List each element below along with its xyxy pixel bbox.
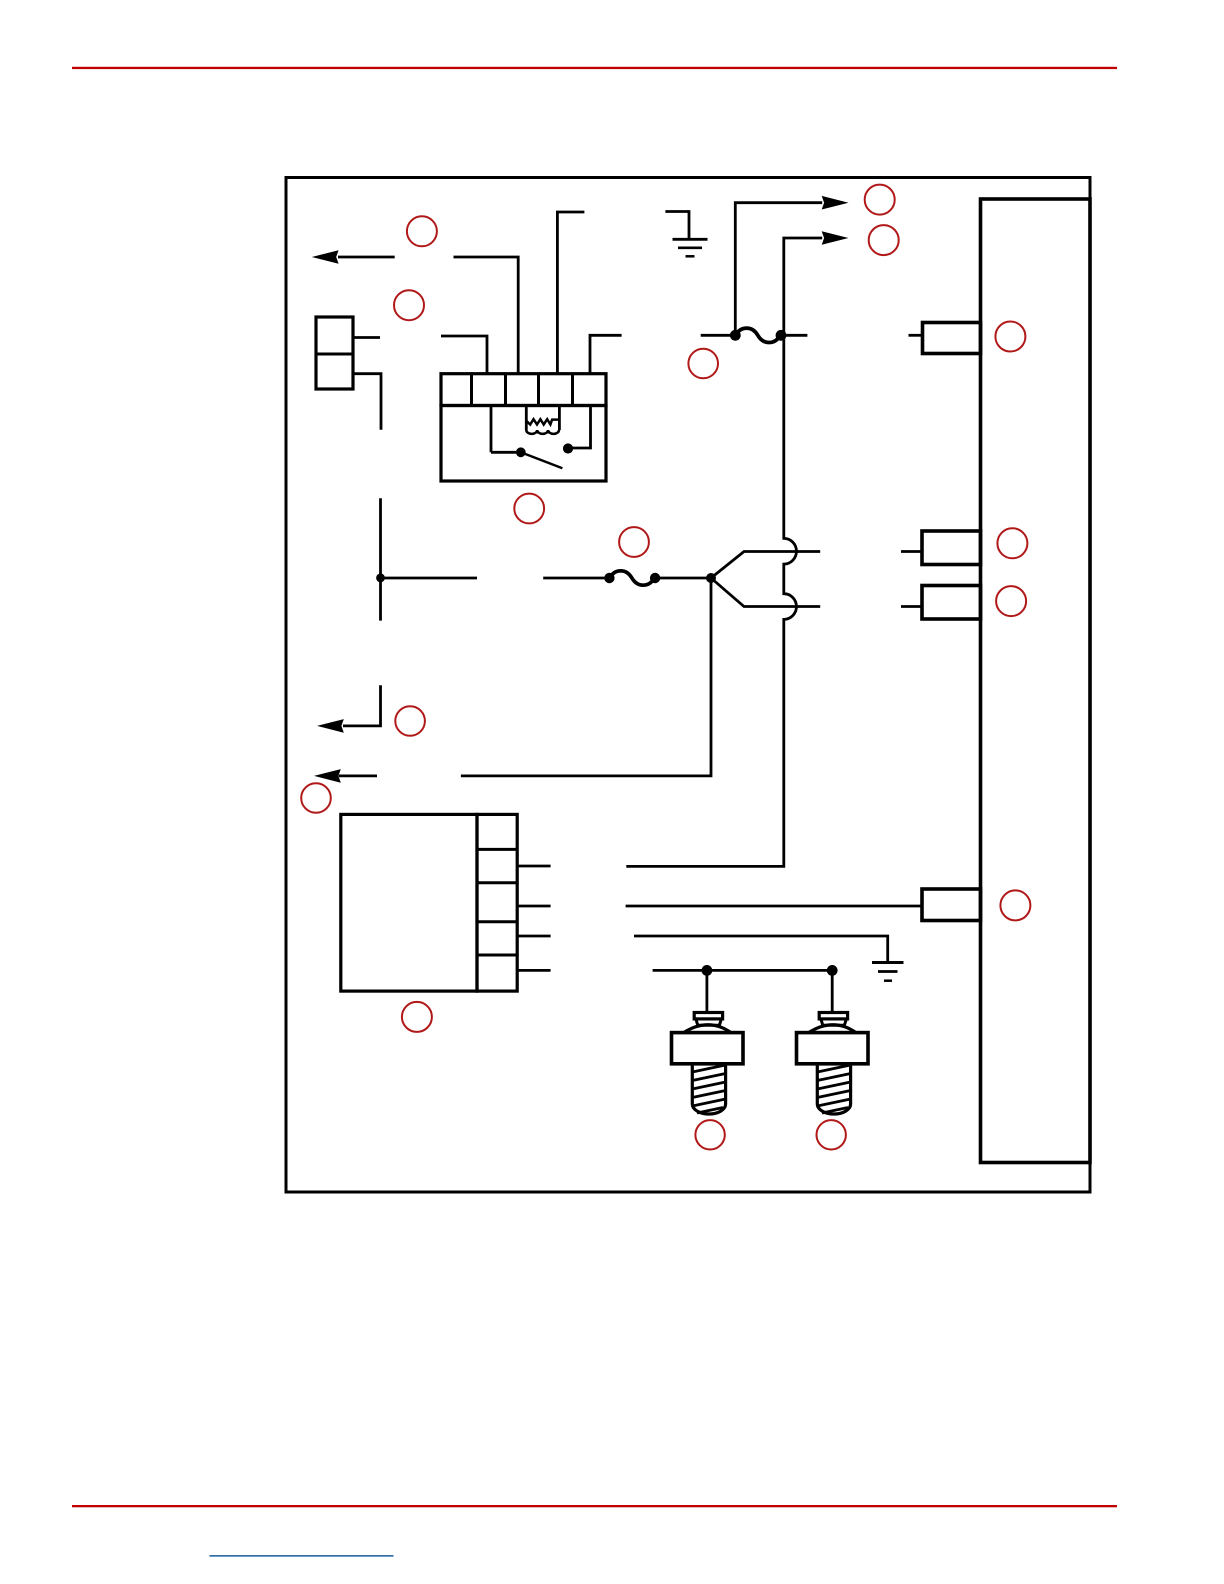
wire: cell5 feed to fuse F1 — [590, 335, 622, 373]
callout circle 5 — [688, 349, 718, 379]
bottom footer rule — [72, 1505, 1117, 1507]
connector P2 divider — [316, 353, 353, 356]
module M1 pin 3 stub — [517, 905, 550, 908]
arrow A4 shaft — [339, 775, 377, 778]
callout circle 11 — [402, 1002, 432, 1032]
callout circle 3 — [865, 185, 895, 215]
callout circle 6 — [995, 322, 1025, 352]
wire: Y branch lower — [711, 578, 820, 607]
wire: fuse F1 down with hops — [626, 335, 796, 866]
module M1 pin 2 stub — [517, 865, 550, 868]
sensor B2 threaded shank — [817, 1064, 850, 1114]
wire: mid vertical with junction — [381, 498, 478, 620]
callout circle 16 — [817, 1120, 846, 1149]
sensor B2 threads — [817, 1065, 850, 1113]
wire: arrow to left (cell3 feed) — [338, 257, 518, 374]
callout circle 13 — [996, 586, 1026, 616]
sensor B2 dome — [809, 1025, 856, 1033]
top header rule — [72, 67, 1117, 69]
ground G1 — [665, 212, 689, 240]
fuse F1 lead right — [781, 334, 807, 337]
arrowhead A3 — [317, 719, 344, 733]
relay K1 switch blade — [521, 452, 563, 468]
sensor B1 threads — [692, 1065, 725, 1113]
junction dot N2 — [706, 573, 716, 583]
connector C3 — [922, 586, 981, 620]
fuse F2 dot left — [604, 573, 614, 583]
wire: P2 lower pin down — [353, 374, 381, 430]
callout circle 8 — [619, 527, 649, 557]
junction block J1 (tall rectangle right side) — [981, 199, 1091, 1163]
module M1 pin 5 stub — [517, 969, 550, 972]
wire: pin3 to connector C4 — [626, 905, 922, 908]
sensor B1 cap — [694, 1013, 722, 1019]
arrowhead A4 — [314, 769, 341, 783]
footer link underline — [210, 1555, 394, 1557]
wire: pin5 lamp bus — [653, 969, 833, 972]
callout circle 10 — [301, 783, 331, 813]
sensor B1 dome — [684, 1025, 731, 1033]
relay K1 coil right wall — [558, 406, 561, 431]
callout circle 1 — [407, 216, 437, 246]
wire: Y branch upper — [711, 552, 820, 579]
callout circle 4 — [869, 225, 899, 255]
relay K1 coil left wall — [525, 406, 528, 431]
relay K1 switch common dot — [516, 447, 526, 457]
callout circle 7 — [514, 494, 544, 524]
sensor B2 hex body — [797, 1033, 869, 1064]
connector C4 — [922, 889, 981, 921]
wire: cell2 feed — [441, 336, 487, 374]
relay K1 terminal dividers — [472, 374, 573, 406]
callout circle 15 — [695, 1120, 724, 1149]
callout circle 2 — [394, 290, 424, 320]
fuse F1 element — [735, 328, 780, 342]
module M1 body — [341, 814, 477, 991]
wire: fuse F1 to connector C1 — [909, 334, 923, 337]
callout circle 14 — [1000, 890, 1030, 920]
diagram border frame — [286, 178, 1090, 1193]
connector P2 (two-cell block left) — [316, 317, 353, 389]
wire: to fuse F2 — [543, 577, 609, 580]
arrowhead A6 — [822, 231, 849, 245]
wire: arrow A3 elbow — [343, 685, 381, 726]
fuse F2 element — [609, 571, 654, 585]
junction dot N4 — [827, 965, 838, 976]
sensor B2 neck — [821, 1019, 847, 1025]
junction dot N3 — [702, 965, 713, 976]
sensor B1 neck — [696, 1019, 722, 1025]
fuse F1 lead left — [701, 334, 736, 337]
wire: stub to connector C2 — [901, 550, 922, 553]
wire: stub to connector C3 — [901, 605, 922, 608]
arrowhead A1 — [312, 250, 339, 264]
relay K1 switch feed — [491, 406, 516, 453]
sensor B1 lead — [706, 970, 709, 1012]
wire: arrow up-right branch 2 — [784, 238, 822, 335]
relay K1 switch contact dot — [563, 443, 573, 453]
sensor B1 hex body — [672, 1033, 744, 1064]
wire: junction down to arrow line — [461, 578, 711, 776]
relay K1 coil zigzag — [526, 419, 559, 424]
wire: pin4 to ground G2 — [634, 936, 888, 963]
sensor B2 cap — [819, 1013, 847, 1019]
relay K1 contact wire — [568, 406, 591, 449]
ground G2 — [872, 961, 904, 964]
connector C1 — [923, 323, 981, 354]
callout circle 12 — [997, 528, 1027, 558]
wire: cell4 feed to ground stub — [557, 212, 584, 374]
fuse F2 dot right — [650, 573, 660, 583]
relay K1 body — [441, 406, 606, 482]
junction dot N1 — [376, 574, 385, 583]
callout circle 9 — [395, 706, 425, 736]
wire: fuse F2 to junction — [655, 577, 711, 580]
sensor B2 lead — [831, 970, 834, 1012]
wire: arrow up-right branch 1 — [735, 203, 822, 336]
module M1 pin column — [477, 814, 517, 991]
relay K1 coil scalloped bottom — [526, 430, 559, 434]
connector P1 top pin stub — [353, 336, 380, 339]
fuse F1 junction dot left — [730, 330, 741, 341]
fuse F1 junction dot right — [776, 330, 787, 341]
connector C2 — [922, 531, 981, 565]
arrowhead A5 — [822, 196, 849, 210]
relay K1 terminal row — [441, 374, 606, 406]
module M1 pin 4 stub — [517, 935, 550, 938]
sensor B1 threaded shank — [692, 1064, 725, 1114]
module M1 pin dividers — [477, 849, 517, 955]
